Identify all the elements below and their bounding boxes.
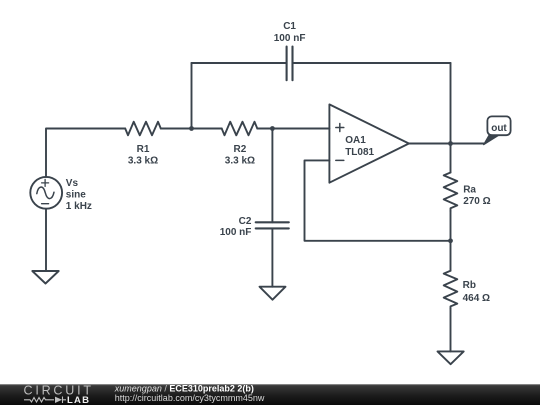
wire R1 to node A [161, 128, 192, 130]
svg-text:100 nF: 100 nF [274, 33, 306, 44]
resistor R1 [125, 122, 161, 136]
wire node C to Rb [450, 241, 452, 271]
wire Vs bottom to ground [45, 209, 47, 271]
junction node B dot [270, 126, 275, 131]
CircuitLab logo circuit drawing [24, 397, 66, 404]
wire right corner down to output node [450, 63, 452, 144]
op-amp U1 triangle [329, 104, 409, 182]
wire C2 to ground [271, 228, 273, 286]
ground for Rb [438, 351, 464, 364]
svg-text:3.3 kΩ: 3.3 kΩ [128, 155, 158, 166]
voltage source Vs circle [30, 177, 62, 209]
voltage source minus sign [42, 203, 49, 205]
wire Vs top to R1 [46, 129, 125, 177]
ground for Vs [32, 271, 58, 284]
svg-text:100 nF: 100 nF [220, 227, 252, 238]
svg-text:C2: C2 [239, 216, 252, 227]
voltage source plus sign [42, 179, 49, 186]
wire output node down to Ra [450, 144, 452, 173]
ground for C2 [260, 287, 286, 300]
svg-text:http://circuitlab.com/cy3tycmm: http://circuitlab.com/cy3tycmmm45nw [115, 393, 265, 403]
resistor Rb [444, 271, 458, 309]
wire node A to R2 [192, 128, 222, 130]
wire op-amp output [409, 143, 484, 145]
wire Rb to ground [450, 309, 452, 352]
svg-text:out: out [491, 123, 507, 134]
wire R2 to node B [257, 128, 272, 130]
junction node C dot [448, 238, 453, 243]
svg-text:270 Ω: 270 Ω [463, 196, 490, 207]
svg-text:LAB: LAB [67, 395, 90, 405]
svg-text:OA1: OA1 [345, 135, 366, 146]
op-amp plus symbol [336, 124, 344, 132]
capacitor C1 [287, 47, 293, 81]
svg-text:Ra: Ra [463, 185, 476, 196]
svg-text:3.3 kΩ: 3.3 kΩ [225, 155, 255, 166]
CircuitLab logo diode [55, 397, 62, 403]
out flag box [487, 116, 510, 135]
capacitor C2 [256, 222, 289, 228]
svg-text:TL081: TL081 [345, 147, 374, 158]
svg-text:Rb: Rb [463, 280, 476, 291]
wire Ra to node C [450, 211, 452, 241]
svg-text:R2: R2 [234, 144, 247, 155]
svg-text:R1: R1 [137, 144, 150, 155]
wire C1 to right corner [293, 62, 451, 64]
wire top left to C1 [192, 62, 287, 64]
svg-text:Vs: Vs [66, 178, 79, 189]
svg-text:C1: C1 [283, 21, 296, 32]
wire node B to op-amp + input [272, 128, 329, 130]
voltage source sine wave [37, 187, 54, 199]
svg-text:sine: sine [66, 189, 86, 200]
svg-text:464 Ω: 464 Ω [463, 293, 490, 304]
junction output node dot [448, 141, 453, 146]
wire node A up [191, 63, 193, 129]
wire node B down to C2 [271, 129, 273, 223]
op-amp minus symbol [336, 159, 344, 161]
svg-text:1 kHz: 1 kHz [66, 201, 92, 212]
resistor R2 [222, 122, 258, 136]
junction node A dot [189, 126, 194, 131]
resistor Ra [444, 173, 458, 212]
out flag pointer [483, 135, 498, 145]
wire feedback from op-amp minus input [305, 160, 451, 240]
footer bar [0, 384, 540, 405]
svg-text:xumengpan / ECE310prelab2 2(b): xumengpan / ECE310prelab2 2(b) [114, 384, 254, 394]
